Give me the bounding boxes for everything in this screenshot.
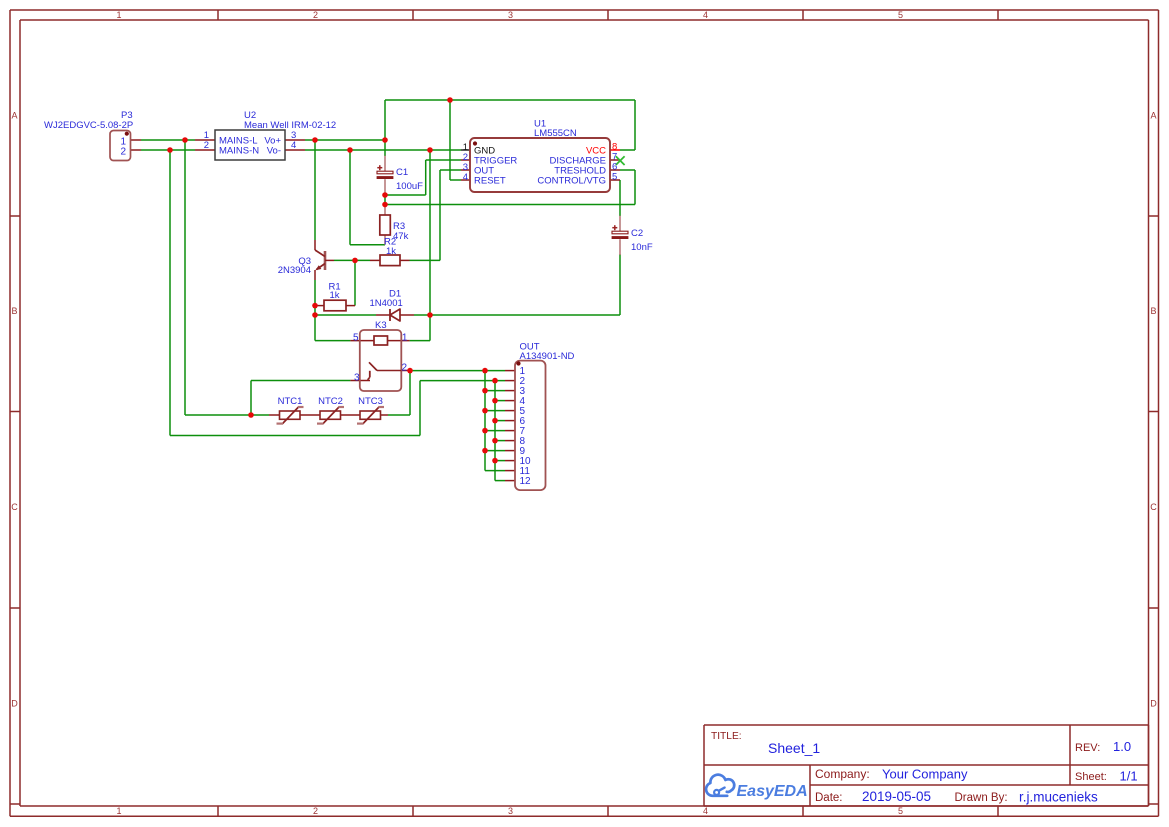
svg-text:Date:: Date: — [815, 792, 843, 804]
svg-text:5: 5 — [353, 333, 359, 344]
svg-text:4: 4 — [463, 172, 468, 183]
svg-text:1k: 1k — [330, 290, 340, 301]
svg-text:NTC2: NTC2 — [318, 396, 343, 407]
svg-text:WJ2EDGVC-5.08-2P: WJ2EDGVC-5.08-2P — [44, 120, 133, 131]
svg-text:Your Company: Your Company — [882, 767, 968, 782]
svg-text:2: 2 — [204, 140, 209, 151]
svg-text:1: 1 — [402, 333, 408, 344]
svg-text:MAINS-N: MAINS-N — [219, 146, 259, 157]
svg-text:4: 4 — [703, 10, 708, 20]
svg-text:1.0: 1.0 — [1113, 739, 1131, 754]
svg-text:CONTROL/VTG: CONTROL/VTG — [537, 176, 606, 187]
svg-text:1/1: 1/1 — [1120, 769, 1138, 784]
svg-text:D: D — [1150, 699, 1157, 709]
svg-text:REV:: REV: — [1075, 742, 1100, 754]
svg-text:2: 2 — [313, 806, 318, 816]
svg-text:12: 12 — [520, 476, 532, 487]
svg-text:A: A — [11, 111, 17, 121]
svg-text:r.j.mucenieks: r.j.mucenieks — [1019, 790, 1098, 805]
svg-text:5: 5 — [898, 806, 903, 816]
svg-text:1N4001: 1N4001 — [370, 298, 403, 309]
svg-text:Company:: Company: — [815, 767, 870, 781]
svg-text:2: 2 — [402, 362, 408, 373]
svg-text:A134901-ND: A134901-ND — [520, 351, 575, 362]
svg-text:C: C — [11, 502, 18, 512]
svg-text:5: 5 — [612, 172, 617, 183]
svg-text:B: B — [11, 306, 17, 316]
svg-text:1: 1 — [116, 10, 121, 20]
svg-text:NTC1: NTC1 — [278, 396, 303, 407]
svg-text:D: D — [11, 699, 18, 709]
svg-text:Drawn By:: Drawn By: — [955, 792, 1008, 804]
svg-text:C2: C2 — [631, 228, 643, 239]
svg-text:3: 3 — [508, 10, 513, 20]
svg-text:Sheet_1: Sheet_1 — [768, 740, 820, 756]
svg-text:4: 4 — [291, 140, 296, 151]
svg-text:2N3904: 2N3904 — [278, 265, 311, 276]
svg-text:C: C — [1150, 502, 1157, 512]
svg-text:LM555CN: LM555CN — [534, 128, 577, 139]
svg-text:2: 2 — [313, 10, 318, 20]
svg-text:K3: K3 — [375, 320, 387, 331]
svg-text:RESET: RESET — [474, 176, 506, 187]
svg-text:4: 4 — [703, 806, 708, 816]
svg-text:Vo-: Vo- — [267, 146, 281, 157]
svg-text:2: 2 — [120, 147, 126, 158]
svg-text:A: A — [1150, 111, 1156, 121]
svg-text:10nF: 10nF — [631, 242, 653, 253]
svg-text:3: 3 — [354, 372, 360, 383]
svg-text:5: 5 — [898, 10, 903, 20]
svg-text:1: 1 — [116, 806, 121, 816]
svg-text:100uF: 100uF — [396, 181, 423, 192]
svg-text:3: 3 — [508, 806, 513, 816]
svg-text:EasyEDA: EasyEDA — [737, 783, 808, 800]
svg-text:NTC3: NTC3 — [358, 396, 383, 407]
svg-text:Sheet:: Sheet: — [1075, 771, 1107, 783]
svg-text:B: B — [1150, 306, 1156, 316]
svg-text:TITLE:: TITLE: — [711, 731, 742, 742]
svg-text:2019-05-05: 2019-05-05 — [862, 789, 931, 804]
svg-text:1k: 1k — [386, 246, 396, 257]
svg-text:C1: C1 — [396, 167, 408, 178]
